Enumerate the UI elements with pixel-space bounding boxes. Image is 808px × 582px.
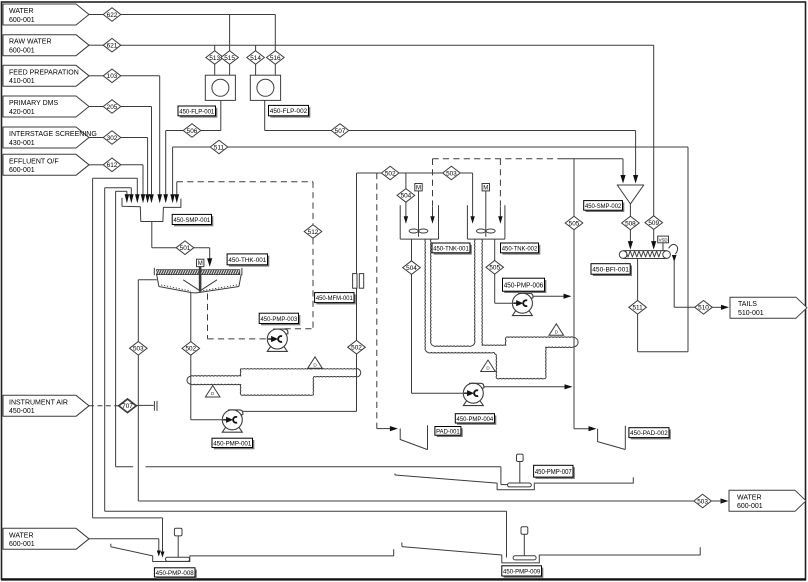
pipe PMP-007 return C bbox=[116, 191, 508, 484]
svg-text:450-THK-001: 450-THK-001 bbox=[228, 257, 266, 264]
pipe 505 riser to SMP-002 bbox=[574, 159, 597, 432]
sump pump 450-PMP-007 bbox=[395, 454, 633, 490]
label 450-PMP-004 bbox=[455, 414, 496, 425]
tank 450-TNK-002 bbox=[467, 191, 505, 240]
motor M 450-TNK-002 bbox=[482, 184, 489, 192]
svg-text:450-TNK-002: 450-TNK-002 bbox=[502, 245, 538, 252]
svg-text:503: 503 bbox=[133, 346, 144, 353]
pipe PMP-004 discharge bbox=[484, 384, 573, 389]
pipe 510 tails bbox=[669, 244, 729, 310]
pipe 506 FLP-001 drain bbox=[166, 100, 221, 194]
stream diamond 504 feed bbox=[397, 189, 415, 203]
svg-text:450-PMP-004: 450-PMP-004 bbox=[457, 416, 494, 423]
svg-text:511: 511 bbox=[214, 144, 225, 151]
svg-text:EFFLUENT O/F: EFFLUENT O/F bbox=[9, 158, 59, 165]
flag FEED PREPARATION 410-001 bbox=[3, 65, 89, 86]
stream diamond 505 riser bbox=[565, 216, 583, 230]
svg-text:501: 501 bbox=[180, 245, 191, 252]
svg-text:PAD-001: PAD-001 bbox=[436, 428, 460, 435]
svg-text:450-FLP-002: 450-FLP-002 bbox=[270, 108, 308, 115]
label 450-PAD-002 bbox=[629, 428, 671, 440]
pump 450-PMP-006 bbox=[512, 293, 533, 315]
pipe 503 thickener overflow bbox=[138, 280, 695, 501]
stream diamond 516 bbox=[267, 51, 285, 65]
wire diamond 514 to filter bbox=[255, 64, 257, 75]
svg-text:507: 507 bbox=[335, 128, 346, 135]
svg-text:420-001: 420-001 bbox=[9, 109, 35, 116]
svg-text:450-PMP-009: 450-PMP-009 bbox=[503, 568, 540, 575]
svg-text:511: 511 bbox=[633, 305, 644, 312]
pipe tank feed header bbox=[357, 173, 475, 224]
pump 450-PMP-004 bbox=[463, 383, 484, 405]
motor M thickener bbox=[197, 259, 204, 267]
pipe 302 feed bbox=[121, 138, 148, 195]
svg-text:M: M bbox=[198, 261, 203, 267]
flag RAW WATER 600-001 bbox=[3, 35, 89, 56]
svg-text:450-PMP-003: 450-PMP-003 bbox=[260, 316, 297, 323]
pipe 621 raw water header bbox=[121, 45, 654, 51]
sump pump 450-PMP-009 bbox=[402, 527, 700, 563]
pipe 508 SMP-002 outlet bbox=[628, 204, 633, 250]
wire diamond 513 to filter bbox=[214, 64, 216, 75]
svg-text:450-PMP-008: 450-PMP-008 bbox=[156, 570, 194, 577]
stream diamond 502 underflow bbox=[182, 342, 200, 356]
label 450-SMP-002 bbox=[584, 201, 625, 212]
stream diamond 511 right bbox=[629, 301, 647, 315]
flag WATER 600-001 bottom bbox=[3, 528, 89, 549]
svg-text:515: 515 bbox=[224, 55, 235, 62]
flag WATER 600-001 bbox=[3, 4, 89, 25]
pipe 622 water header bbox=[121, 15, 275, 51]
svg-text:450-SMP-001: 450-SMP-001 bbox=[173, 217, 210, 224]
sump pump 450-PMP-008 bbox=[111, 528, 394, 561]
pipe 505 TNK-002 drain bbox=[495, 239, 513, 303]
svg-text:TAILS: TAILS bbox=[738, 301, 757, 308]
pump 450-PMP-001 bbox=[222, 410, 243, 432]
flag INSTRUMENT AIR 450-001 bbox=[3, 395, 89, 416]
label 450-PMP-007 bbox=[534, 465, 575, 479]
pipe 511 filtrate return bbox=[173, 147, 688, 352]
filter 450-FLP-002 bbox=[250, 75, 280, 100]
stream diamond 502 header bbox=[381, 166, 399, 180]
wire flag tip to diamond 622 bbox=[89, 14, 103, 16]
svg-text:WATER: WATER bbox=[9, 532, 34, 539]
svg-text:WATER: WATER bbox=[9, 8, 34, 15]
pipe PMP-006 discharge bbox=[533, 294, 572, 299]
stream diamond 621 bbox=[103, 38, 121, 52]
thickener 450-THK-001 bbox=[154, 266, 242, 293]
svg-text:103: 103 bbox=[107, 73, 118, 80]
vsd drive line bbox=[662, 243, 664, 251]
svg-text:M: M bbox=[483, 186, 488, 192]
stream diamond 514 bbox=[247, 51, 265, 65]
wire diamond 516 to filter bbox=[274, 64, 276, 75]
svg-text:302: 302 bbox=[107, 135, 118, 142]
pad PAD-001 bbox=[400, 425, 427, 449]
pipe PMP-001 discharge bbox=[243, 410, 357, 412]
wire flag tip to diamond 302 bbox=[89, 137, 103, 139]
pad 450-PAD-002 bbox=[598, 426, 626, 450]
svg-text:600-001: 600-001 bbox=[9, 17, 35, 24]
launder trench left bbox=[187, 369, 361, 396]
svg-text:450-PMP-001: 450-PMP-001 bbox=[213, 440, 251, 447]
pipe 509 wash water bbox=[651, 45, 656, 249]
stream diamond 515 bbox=[221, 51, 239, 65]
pipe water to PMP-008 pit bbox=[89, 539, 161, 557]
svg-text:504: 504 bbox=[401, 193, 412, 200]
label PAD-001 bbox=[435, 427, 463, 438]
wire flag tip to diamond 103 bbox=[89, 75, 103, 77]
label 450-TNK-002 bbox=[501, 243, 541, 255]
svg-text:430-001: 430-001 bbox=[9, 140, 35, 147]
label 450-MFM-001 bbox=[315, 293, 356, 305]
svg-text:514: 514 bbox=[250, 55, 261, 62]
stream diamond 707 bbox=[119, 399, 137, 413]
wire flag tip to diamond 205 bbox=[89, 106, 103, 108]
stream diamond 507 bbox=[331, 124, 349, 138]
svg-text:PRIMARY DMS: PRIMARY DMS bbox=[9, 100, 58, 107]
stream diamond 505 drain bbox=[486, 261, 504, 275]
drain symbol T2 bbox=[308, 357, 323, 369]
stream diamond 503 outlet bbox=[694, 494, 712, 508]
stream diamond 302 bbox=[103, 131, 121, 145]
stream diamond 506 bbox=[183, 124, 201, 138]
label 450-PMP-009 bbox=[502, 566, 544, 578]
label 450-PMP-008 bbox=[154, 568, 196, 579]
label 450-TNK-001 bbox=[432, 243, 472, 255]
pipe 502 riser bbox=[356, 173, 358, 411]
svg-text:707: 707 bbox=[122, 403, 133, 410]
stream diamond 508 bbox=[622, 216, 640, 230]
svg-text:506: 506 bbox=[187, 128, 198, 135]
label 450-SMP-001 bbox=[172, 214, 213, 226]
svg-text:513: 513 bbox=[209, 55, 220, 62]
sump 450-SMP-001 bbox=[122, 198, 181, 222]
svg-text:600-001: 600-001 bbox=[737, 503, 763, 510]
svg-text:450-PAD-002: 450-PAD-002 bbox=[630, 430, 668, 437]
flag WATER 600-001 outlet bbox=[729, 490, 806, 511]
filter 450-FLP-001 bbox=[205, 75, 235, 100]
belt filter 450-BFI-001 bbox=[619, 251, 670, 259]
arrow into SMP-002 right bbox=[633, 175, 638, 184]
pipe 103 feed bbox=[121, 76, 160, 195]
pipe 501 sump outlet bbox=[152, 222, 213, 267]
svg-text:INTERSTAGE SCREENING: INTERSTAGE SCREENING bbox=[9, 131, 97, 138]
svg-text:M: M bbox=[416, 186, 421, 192]
pipe 507 FLP-002 drain bbox=[265, 100, 636, 177]
stream diamond 511 left bbox=[210, 140, 228, 154]
wire diamond 515 to filter bbox=[229, 64, 231, 75]
flag INTERSTAGE SCREENING 430-001 bbox=[3, 127, 97, 148]
svg-text:509: 509 bbox=[648, 220, 659, 227]
sump 450-SMP-002 bbox=[617, 185, 644, 204]
stream diamond 503 header bbox=[443, 166, 461, 180]
svg-text:502: 502 bbox=[351, 345, 362, 352]
label 450-PMP-003 bbox=[259, 313, 300, 325]
svg-text:612: 612 bbox=[107, 162, 118, 169]
motor M 450-TNK-001 bbox=[415, 184, 422, 192]
flag PRIMARY DMS 420-001 bbox=[3, 96, 89, 117]
pipe instrument air stub bbox=[136, 401, 157, 411]
svg-text:205: 205 bbox=[107, 104, 118, 111]
svg-text:505: 505 bbox=[569, 220, 580, 227]
vsd box bbox=[658, 236, 669, 243]
svg-text:FEED PREPARATION: FEED PREPARATION bbox=[9, 69, 79, 76]
svg-text:621: 621 bbox=[107, 43, 118, 50]
stream diamond 503 overflow bbox=[130, 342, 148, 356]
stream diamond 512 bbox=[304, 225, 322, 239]
svg-text:450-SMP-002: 450-SMP-002 bbox=[585, 203, 622, 210]
stream diamond 612 bbox=[103, 158, 121, 172]
stream diamond 504 drain bbox=[403, 261, 421, 275]
stream diamond 513 bbox=[206, 51, 224, 65]
svg-text:VSD: VSD bbox=[659, 237, 668, 242]
drain symbol T4 bbox=[549, 324, 564, 336]
svg-text:450-001: 450-001 bbox=[9, 408, 35, 415]
svg-text:INSTRUMENT AIR: INSTRUMENT AIR bbox=[9, 399, 68, 406]
svg-text:RAW WATER: RAW WATER bbox=[9, 39, 52, 46]
svg-text:510: 510 bbox=[698, 305, 709, 312]
pipe 612 feed bbox=[121, 165, 143, 195]
svg-text:503: 503 bbox=[697, 498, 708, 505]
svg-text:516: 516 bbox=[270, 55, 281, 62]
stream diamond 501 bbox=[176, 241, 194, 255]
stream diamond 622 bbox=[103, 8, 121, 22]
svg-text:450-TNK-001: 450-TNK-001 bbox=[433, 245, 469, 252]
arrows into SMP-001 bbox=[125, 194, 180, 203]
label 450-BFI-001 bbox=[591, 264, 632, 276]
svg-text:600-001: 600-001 bbox=[9, 541, 35, 548]
label 450-FLP-002 bbox=[269, 105, 311, 117]
stream diamond 205 bbox=[103, 100, 121, 114]
drain symbol T3 bbox=[481, 360, 496, 372]
svg-text:512: 512 bbox=[308, 229, 319, 236]
pipe 502 underflow bbox=[191, 293, 223, 420]
svg-text:450-BFI-001: 450-BFI-001 bbox=[592, 266, 629, 273]
svg-text:502: 502 bbox=[185, 346, 196, 353]
svg-text:410-001: 410-001 bbox=[9, 78, 35, 85]
stream diamond 502 riser bbox=[348, 340, 366, 354]
pipe instrument air dashed bbox=[89, 405, 120, 407]
svg-text:450-MFM-001: 450-MFM-001 bbox=[316, 295, 353, 302]
drain symbol T1 bbox=[205, 386, 220, 398]
wire flag tip to diamond 612 bbox=[89, 164, 103, 166]
flag EFFLUENT O/F 600-001 bbox=[3, 154, 89, 175]
label 450-PMP-006 bbox=[503, 278, 547, 293]
stream diamond 510 bbox=[695, 301, 713, 315]
svg-text:450-FLP-001: 450-FLP-001 bbox=[179, 108, 214, 115]
svg-text:450-PMP-006: 450-PMP-006 bbox=[504, 280, 544, 289]
svg-text:600-001: 600-001 bbox=[9, 48, 35, 55]
svg-text:502: 502 bbox=[385, 170, 396, 177]
pipe 205 feed bbox=[121, 107, 152, 195]
pipe PMP-009 return B bbox=[105, 188, 507, 558]
pipe PMP-008 return bbox=[93, 178, 165, 557]
stream diamond 509 bbox=[645, 216, 663, 230]
pipe to PAD-001 dashed bbox=[377, 173, 398, 431]
tank 450-TNK-001 bbox=[400, 191, 438, 240]
svg-text:505: 505 bbox=[489, 265, 500, 272]
label 450-THK-001 bbox=[227, 254, 269, 267]
stream diamond 103 bbox=[103, 69, 121, 83]
flow meter 450-MFM-001 bbox=[353, 274, 364, 289]
pipe underflow dashed bbox=[208, 294, 267, 339]
pipe dashed tank feed bbox=[430, 159, 625, 224]
svg-text:503: 503 bbox=[446, 170, 457, 177]
svg-text:508: 508 bbox=[625, 220, 636, 227]
svg-text:WATER: WATER bbox=[737, 494, 762, 501]
pipe 504 TNK-001 drain bbox=[412, 239, 464, 393]
flag TAILS 510-001 bbox=[730, 297, 807, 318]
svg-text:450-PMP-007: 450-PMP-007 bbox=[535, 467, 572, 476]
wire flag tip to diamond 621 bbox=[89, 44, 103, 46]
pipe 512 recirculation dashed bbox=[177, 182, 313, 329]
svg-text:622: 622 bbox=[107, 12, 118, 19]
svg-text:504: 504 bbox=[406, 265, 417, 272]
pump 450-PMP-003 bbox=[267, 329, 288, 351]
arrow to water outlet bbox=[711, 498, 729, 503]
label 450-PMP-001 bbox=[212, 438, 254, 449]
svg-text:510-001: 510-001 bbox=[738, 310, 764, 317]
launder trench right bbox=[425, 239, 578, 379]
svg-text:600-001: 600-001 bbox=[9, 167, 35, 174]
label 450-FLP-001 bbox=[178, 106, 217, 118]
